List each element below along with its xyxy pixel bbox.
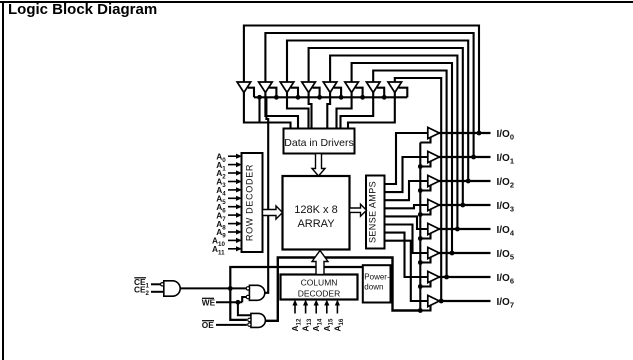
svg-text:I/O3: I/O3 (497, 201, 515, 214)
input buffer D2 (259, 82, 273, 93)
arrow data-in drivers to array (312, 154, 325, 177)
input buffer D4 (302, 82, 316, 93)
wire sense amp output 3 to output buffer (385, 205, 429, 208)
arrowhead A16 (335, 300, 340, 306)
node I/O5 feedback junction (450, 251, 455, 256)
wire sense amp output 7 to output buffer (385, 241, 429, 301)
wire sense amp output 0 to output buffer (385, 133, 429, 184)
output buffer Q7 (428, 295, 440, 306)
input buffer D1 (237, 82, 251, 93)
svg-text:I/O7: I/O7 (497, 297, 515, 310)
arrowhead A9 (236, 229, 242, 234)
wire A8 input stem (228, 223, 238, 225)
node I/O0 feedback junction (477, 131, 482, 136)
svg-text:I/O2: I/O2 (497, 177, 515, 190)
node enable bus junction 5 (360, 95, 365, 100)
arrowhead A3 (236, 179, 242, 184)
wire WE jog into WE gate (242, 297, 246, 302)
wire I/O5 output line (439, 252, 491, 254)
node enable bus junction 3 (317, 95, 322, 100)
input buffer D6 (345, 82, 359, 93)
svg-text:OE: OE (202, 320, 214, 330)
wire sense amp output 5 to output buffer (385, 225, 429, 254)
wire enable stub buffer D5 (334, 88, 341, 98)
wire A9 input stem (228, 231, 238, 233)
wire A5 input stem (228, 197, 238, 199)
wire enable stub buffer D4 (312, 88, 319, 98)
page border top (0, 1, 633, 3)
wire input buffer D3 output (287, 92, 309, 129)
wire A10 input stem (228, 239, 238, 241)
input buffer D8 (388, 82, 402, 93)
wire enable stub output buffer 0 (420, 138, 430, 143)
wire enable stub output buffer 5 (420, 258, 430, 263)
wire CE branch up to power-down (230, 267, 362, 288)
node I/O6 feedback junction (444, 275, 449, 280)
wire I/O7 feedback to input buffer (395, 78, 441, 301)
wire enable stub output buffer 1 (420, 162, 430, 167)
arrow array to sense amps (350, 204, 367, 216)
svg-text:I/O0: I/O0 (497, 129, 515, 142)
arrow row decoder to array (263, 206, 283, 219)
node output-enable junction 1 (418, 164, 423, 169)
output buffer Q4 (428, 223, 440, 234)
wire OE gate output route (265, 258, 420, 321)
input buffer D3 (280, 82, 294, 93)
svg-text:ARRAY: ARRAY (297, 218, 335, 230)
node output-enable junction 2 (418, 188, 423, 193)
svg-text:I/O6: I/O6 (497, 273, 515, 286)
wire I/O3 feedback to input buffer (309, 48, 463, 205)
block SENSE AMPS (366, 176, 385, 249)
overline WE (202, 297, 214, 299)
page border left (2, 1, 4, 360)
arrowhead A6 (236, 204, 242, 209)
svg-text:down: down (364, 283, 383, 292)
wire input buffer D7 output (341, 92, 374, 129)
output buffer Q2 (428, 175, 440, 186)
wire output-enable bus (419, 143, 421, 311)
output buffer Q1 (428, 151, 440, 162)
gate CE (AND) (164, 281, 180, 296)
overline CE1 (134, 277, 146, 279)
node output-enable junction 3 (418, 212, 423, 217)
wire A15 input stem (326, 305, 328, 314)
bubble WE gate input 1 (246, 287, 249, 290)
arrowhead A10 (236, 238, 242, 243)
wire input buffer D8 output (348, 92, 395, 129)
wire enable stub output buffer 7 (420, 306, 430, 311)
block ROW DECODER (242, 153, 263, 252)
wire enable stub buffer D3 (291, 88, 298, 98)
wire enable stub buffer D7 (377, 88, 384, 98)
node I/O4 feedback junction (455, 227, 460, 232)
wire CE branch down to OE gate (230, 288, 247, 320)
wire sense amp output 6 to output buffer (385, 233, 429, 277)
wire enable stub output buffer 3 (420, 210, 430, 215)
arrowhead A5 (236, 196, 242, 201)
node enable bus junction WE drop (257, 95, 262, 100)
wire WE gate output riser (265, 97, 268, 292)
node I/O3 feedback junction (460, 203, 465, 208)
gate WE (AND) (249, 285, 264, 300)
wire A6 input stem (228, 206, 238, 208)
bubble CE1 input (161, 283, 164, 286)
bubble WE gate input 2 (246, 295, 249, 298)
wire A3 input stem (228, 181, 238, 183)
node enable bus junction 6 (382, 95, 387, 100)
wire enable stub buffer D2 (269, 88, 276, 98)
input buffer D5 (323, 82, 337, 93)
wire WE input stem (216, 301, 242, 303)
wire I/O2 feedback to input buffer (287, 41, 468, 182)
arrowhead A13 (303, 300, 308, 306)
wire CE gate output (180, 287, 246, 289)
wire input buffer D6 output (337, 92, 352, 129)
wire I/O3 output line (439, 204, 491, 206)
wire OE input stem (216, 324, 247, 326)
wire CE1 input stem (151, 283, 161, 285)
block Power-down (363, 265, 391, 302)
wire I/O6 output line (439, 276, 491, 278)
block Data in Drivers (284, 129, 355, 154)
wire A12 input stem (294, 305, 296, 314)
wire A7 input stem (228, 214, 238, 216)
wire WE drop to data-in level (258, 97, 260, 122)
node enable bus junction 1 (274, 95, 279, 100)
node output-enable junction 5 (418, 260, 423, 265)
wire CE2 input stem (151, 291, 164, 293)
arrowhead A7 (236, 213, 242, 218)
arrowhead A1 (236, 162, 242, 167)
svg-text:COLUMN: COLUMN (301, 278, 338, 288)
arrowhead A14 (314, 300, 319, 306)
node I/O1 feedback junction (471, 155, 476, 160)
wire A1 input stem (228, 164, 238, 166)
arrowhead A8 (236, 221, 242, 226)
wire A11 input stem (228, 248, 238, 250)
wire sense amp output 2 to output buffer (385, 181, 429, 200)
svg-text:DECODER: DECODER (298, 289, 341, 299)
output buffer Q0 (428, 127, 440, 138)
wire input buffer D5 output (327, 92, 330, 129)
svg-text:I/O1: I/O1 (497, 153, 515, 166)
wire A14 input stem (315, 305, 317, 314)
wire enable stub output buffer 6 (420, 282, 430, 287)
output buffer Q6 (428, 271, 440, 282)
arrowhead A11 (236, 246, 242, 251)
block COLUMN DECODER (281, 275, 358, 300)
node output-enable junction 4 (418, 236, 423, 241)
wire input buffer D4 output (309, 92, 312, 129)
svg-text:I/O5: I/O5 (497, 249, 515, 262)
node output-enable junction 6 (418, 284, 423, 289)
svg-text:128K x 8: 128K x 8 (294, 204, 337, 216)
gate OE (AND) (251, 313, 266, 327)
wire I/O5 feedback to input buffer (352, 63, 452, 253)
wire sense amp output 4 to output buffer (385, 216, 429, 229)
wire I/O0 output line (439, 132, 491, 134)
node I/O7 feedback junction (439, 299, 444, 304)
wire WE branch down to OE gate (238, 302, 251, 315)
node CE junction (228, 286, 233, 291)
wire enable stub buffer D1 (248, 88, 254, 98)
overline OE (202, 320, 214, 322)
wire I/O1 output line (439, 156, 491, 158)
wire input buffer D2 output (265, 92, 298, 129)
node output-enable junction 7 (418, 308, 423, 313)
input buffer D7 (366, 82, 380, 93)
wire I/O6 feedback to input buffer (373, 71, 446, 278)
node enable bus junction 2 (296, 95, 301, 100)
wire enable stub output buffer 2 (420, 186, 430, 191)
arrowhead A0 (236, 154, 242, 159)
block 128K x 8 ARRAY (283, 176, 350, 250)
wire A16 input stem (336, 305, 338, 314)
svg-text:Power-: Power- (364, 273, 390, 282)
wire A2 input stem (228, 172, 238, 174)
wire I/O1 feedback to input buffer (265, 33, 473, 157)
svg-text:Data in Drivers: Data in Drivers (284, 137, 353, 149)
node WE junction (236, 300, 241, 305)
wire A4 input stem (228, 189, 238, 191)
wire I/O0 feedback to input buffer (244, 26, 479, 134)
wire enable stub buffer D6 (355, 88, 362, 98)
arrowhead A15 (324, 300, 329, 306)
output buffer Q5 (428, 247, 440, 258)
output buffer Q3 (428, 199, 440, 210)
node I/O2 feedback junction (466, 179, 471, 184)
wire I/O7 output line (439, 300, 491, 302)
arrowhead A2 (236, 170, 242, 175)
wire input-buffer enable bus (254, 96, 407, 98)
wire I/O4 output line (439, 228, 491, 230)
wire A13 input stem (305, 305, 307, 314)
svg-text:I/O4: I/O4 (497, 225, 515, 238)
arrowhead A12 (292, 300, 297, 306)
node enable bus junction 4 (339, 95, 344, 100)
wire enable stub buffer D8 (399, 88, 408, 98)
bubble OE gate input 2 (248, 323, 251, 326)
wire enable stub output buffer 4 (420, 234, 430, 239)
wire A0 input stem (228, 155, 238, 157)
wire I/O2 output line (439, 180, 491, 182)
arrowhead A4 (236, 187, 242, 192)
wire I/O4 feedback to input buffer (330, 56, 457, 230)
wire sense amp output 1 to output buffer (385, 157, 429, 192)
wire input buffer D1 output (244, 92, 291, 129)
bubble OE gate input 1 (248, 318, 251, 321)
svg-text:ROW DECODER: ROW DECODER (245, 164, 255, 241)
title Logic Block Diagram (8, 1, 157, 18)
arrow column decoder to array (312, 251, 328, 275)
svg-text:SENSE AMPS: SENSE AMPS (368, 181, 378, 243)
